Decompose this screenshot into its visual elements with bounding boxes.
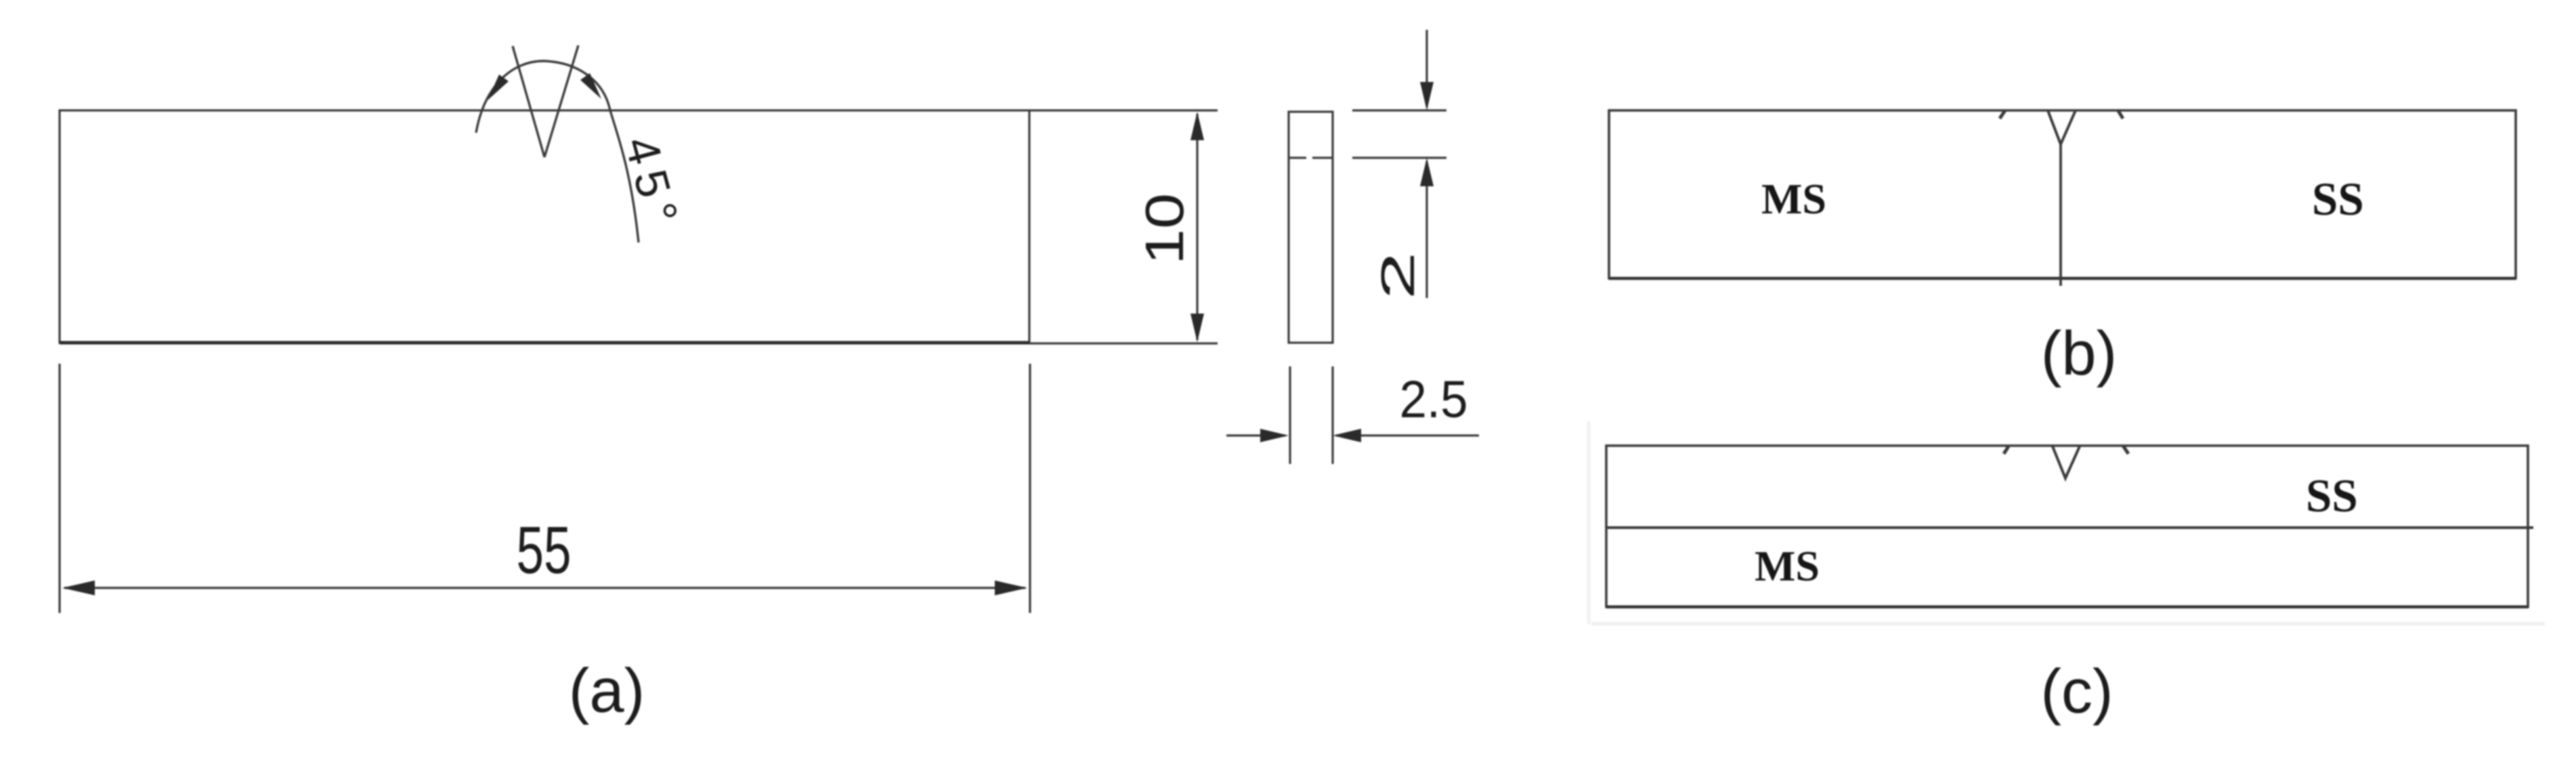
angle dimension arc with leader <box>476 61 639 242</box>
specimen (b) weld notch V <box>2048 110 2076 144</box>
dimension 2 upper extension tick <box>1352 109 1446 111</box>
svg-text:SS: SS <box>2312 173 2364 225</box>
specimen (c) interface line between SS and MS <box>1606 526 2533 529</box>
dimension 2.5 right extension line <box>1331 366 1333 464</box>
svg-text:2: 2 <box>1371 252 1424 300</box>
dimension 2 upper arrowhead <box>1420 82 1434 110</box>
specimen (b) rectangle <box>1609 110 2516 278</box>
scan artifact below (c) <box>1591 622 2545 626</box>
specimen (c) right tick mark <box>2123 446 2128 454</box>
dimension 10 line <box>1196 114 1198 340</box>
svg-text:SS: SS <box>2306 470 2358 522</box>
specimen (c) bottom edge emphasis <box>1606 606 2528 609</box>
specimen (a) thick bottom edge <box>60 341 1029 345</box>
specimen (a) main rectangle outline <box>60 110 1029 343</box>
specimen (b) bottom edge emphasis <box>1609 277 2516 280</box>
svg-text:55: 55 <box>517 513 572 587</box>
dimension 55 left arrowhead <box>62 580 95 595</box>
dimension 2.5 left arrowhead <box>1260 429 1289 442</box>
dimension 2 lower line <box>1425 161 1427 298</box>
specimen (b) right tick mark <box>2118 110 2123 119</box>
svg-text:10: 10 <box>1134 193 1195 265</box>
dimension 2.5 left extension line <box>1289 366 1291 464</box>
specimen (a) top edge extension to dimension 10 <box>1029 109 1218 111</box>
dimension 10 top arrowhead <box>1190 112 1204 140</box>
dimension 2.5 right arrow line <box>1336 434 1479 436</box>
specimen (a) bottom edge extension to dimension 10 <box>1029 342 1218 344</box>
angle arc left arrowhead <box>488 75 509 100</box>
svg-text:MS: MS <box>1761 175 1826 223</box>
svg-text:(b): (b) <box>2041 319 2117 388</box>
dimension 55 left extension line <box>58 364 60 613</box>
notch V left flank <box>513 46 544 157</box>
dimension 2 upper line <box>1425 30 1427 107</box>
svg-text:(c): (c) <box>2040 657 2113 726</box>
svg-text:MS: MS <box>1755 542 1820 590</box>
dimension 10 bottom arrowhead <box>1190 314 1204 342</box>
end view rectangle <box>1289 112 1333 343</box>
dimension 2.5 right arrowhead <box>1333 429 1361 442</box>
specimen (c) rectangle <box>1606 446 2528 607</box>
dimension 55 right extension line <box>1029 364 1031 613</box>
specimen (c) left tick mark <box>2004 446 2009 454</box>
dimension 2 lower extension tick <box>1352 156 1446 158</box>
dimension 55 line <box>64 587 1025 589</box>
dimension 2 lower arrowhead <box>1420 158 1434 186</box>
specimen (b) weld joint line <box>2059 144 2062 286</box>
angle arc right arrowhead <box>580 73 601 99</box>
specimen (c) notch V <box>2053 446 2080 478</box>
notch depth dash-dot line <box>1289 156 1306 158</box>
dimension 2.5 left arrow line <box>1226 434 1285 436</box>
notch V right flank <box>544 45 578 157</box>
scan artifact left of (c) <box>1587 421 1591 624</box>
specimen (b) left tick mark <box>2000 110 2005 119</box>
svg-text:2.5: 2.5 <box>1400 370 1468 429</box>
dimension 55 right arrowhead <box>995 580 1027 595</box>
svg-text:(a): (a) <box>569 656 645 725</box>
